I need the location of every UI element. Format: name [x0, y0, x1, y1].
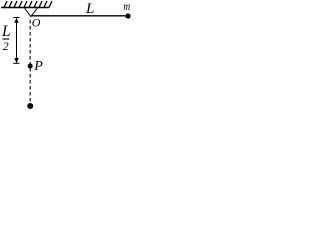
dashed vertical line from O — [29, 20, 31, 103]
dimension arrowhead down — [14, 58, 18, 63]
rod of length L — [31, 15, 126, 17]
ceiling hatching — [4, 1, 52, 8]
point P dot — [28, 64, 33, 69]
bottom dot — [27, 103, 33, 109]
fraction L/2 label — [1, 23, 11, 53]
dimension arrowhead up — [14, 18, 18, 23]
svg-text:L: L — [85, 1, 94, 17]
ceiling line — [1, 7, 49, 9]
svg-text:2: 2 — [3, 41, 9, 53]
pivot support V at O — [25, 8, 38, 17]
svg-text:P: P — [33, 59, 43, 74]
svg-text:m: m — [123, 0, 130, 13]
svg-text:O: O — [32, 16, 41, 30]
mass m dot at rod end — [125, 13, 130, 18]
svg-text:L: L — [1, 23, 11, 40]
dimension line L/2 — [13, 18, 19, 64]
